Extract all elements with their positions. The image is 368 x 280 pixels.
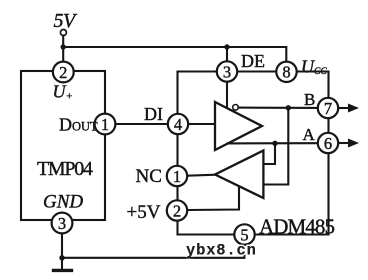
svg-text:DI: DI	[144, 104, 163, 124]
svg-text:2: 2	[173, 201, 181, 220]
ADM485 outline: top edge pin3-pin8	[238, 70, 276, 72]
junction: A line	[272, 141, 277, 146]
TMP04 body	[21, 71, 105, 220]
svg-text:ADM485: ADM485	[259, 215, 335, 239]
svg-text:4: 4	[174, 115, 182, 134]
ground bar	[54, 269, 72, 272]
pin 8 circle (UCC)	[276, 62, 296, 82]
wire: receiver output to pin 1	[188, 175, 215, 176]
svg-text:5V: 5V	[54, 10, 79, 32]
wire: B output arrow lead	[339, 107, 350, 109]
arrowhead B	[348, 104, 359, 113]
junction: GND rail	[59, 255, 64, 260]
svg-text:B: B	[304, 90, 315, 109]
wire: DOUT to DI	[116, 123, 167, 125]
wire: GND rail visible under watermark	[180, 257, 244, 259]
wire: pin 2 to receiver enable	[188, 187, 239, 210]
pin 4 circle (DI)	[168, 114, 188, 134]
5V supply terminal	[60, 30, 66, 36]
ADM485 outline: left edge pin4-pin1	[176, 135, 178, 165]
wire: driver output to B pin 7	[238, 107, 317, 109]
pin 5 circle (GND)	[234, 224, 254, 244]
wire: DE pin 3 to driver enable	[226, 83, 228, 108]
junction: rail at DE	[224, 44, 229, 49]
pin 2 circle (TMP04 U+)	[53, 62, 74, 83]
wire: 5V terminal down to rail junction	[62, 36, 64, 47]
junction: B line	[286, 105, 291, 110]
ADM485 outline: left edge	[178, 72, 217, 114]
ADM485 outline: bottom-left corner	[178, 222, 234, 235]
svg-text:TMP04: TMP04	[37, 158, 93, 180]
pin 2 circle (+5V)	[167, 200, 187, 220]
wire: A output arrow lead	[339, 142, 350, 144]
svg-text:3: 3	[58, 214, 66, 233]
pin 3 circle (TMP04 GND)	[52, 213, 73, 234]
wire: TMP04 GND drop	[61, 234, 63, 269]
driver triangle U1a	[215, 102, 262, 150]
ADM485 outline: bottom-right corner	[256, 154, 329, 235]
svg-text:6: 6	[324, 134, 332, 153]
wire: A line drop to receiver upper input	[264, 143, 276, 164]
svg-text:8: 8	[282, 63, 290, 82]
svg-text:7: 7	[324, 99, 332, 118]
svg-text:1: 1	[173, 167, 181, 186]
svg-text:1: 1	[101, 115, 109, 134]
wire: GND rail to ADM485 pin 5	[62, 246, 244, 258]
svg-text:NC: NC	[136, 166, 162, 187]
junction: rail at U+	[61, 44, 66, 49]
pin 1 circle (TMP04 DOUT)	[95, 114, 116, 135]
driver enable bubble	[233, 105, 239, 111]
svg-text:DE: DE	[241, 51, 265, 71]
svg-text:A: A	[303, 125, 316, 144]
svg-text:2: 2	[59, 63, 67, 82]
wire: B line drop to receiver lower input	[264, 108, 289, 185]
svg-text:+5V: +5V	[127, 202, 161, 223]
wire: +5V top rail	[63, 47, 286, 61]
pin 1 circle (NC)	[167, 166, 187, 186]
wire: driver inverted output to A pin 6	[228, 142, 318, 144]
arrowhead A	[348, 139, 359, 148]
ADM485 outline: top-right corner	[298, 72, 329, 98]
ADM485 outline: left edge pin1-pin2	[176, 187, 178, 200]
wire: rail junction down to TMP04 pin 2	[62, 47, 64, 61]
svg-text:3: 3	[223, 62, 231, 81]
wire: DI pin 4 to driver input	[189, 123, 215, 125]
pin 6 circle (A)	[318, 133, 338, 153]
pin 7 circle (B)	[318, 98, 338, 118]
pin 3 circle (DE)	[217, 61, 237, 81]
svg-text:ybx8.cn: ybx8.cn	[186, 242, 257, 260]
receiver triangle U1b	[215, 151, 263, 199]
svg-text:GND: GND	[43, 192, 83, 213]
ADM485 outline: right edge pin7-pin6	[327, 119, 329, 132]
wire: rail drop to DE pin 3	[226, 47, 228, 61]
